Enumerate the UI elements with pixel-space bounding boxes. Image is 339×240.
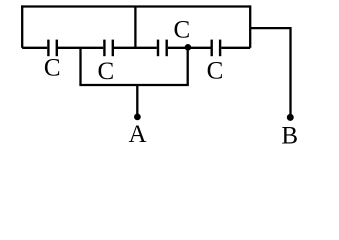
wire middle vertical	[134, 7, 136, 48]
wire bottom bus	[79, 84, 188, 86]
wire branch to B	[250, 27, 290, 29]
capacitor C4	[212, 40, 220, 57]
node A terminal dot	[134, 114, 141, 121]
svg-text:C: C	[44, 55, 61, 82]
wire cap row segment 3	[114, 47, 157, 49]
wire left vertical	[21, 5, 23, 47]
junction dot	[185, 44, 192, 51]
svg-text:C: C	[98, 58, 115, 85]
wire top rail	[21, 5, 250, 7]
node B terminal dot	[287, 114, 294, 121]
wire cap row segment 1	[22, 47, 47, 49]
svg-text:C: C	[207, 57, 224, 84]
capacitor C1	[48, 40, 56, 57]
wire B vertical	[289, 27, 291, 117]
svg-text:C: C	[173, 17, 190, 44]
wire right drop	[187, 48, 189, 85]
capacitor C3	[158, 40, 167, 57]
svg-text:A: A	[128, 121, 146, 148]
wire left drop	[79, 48, 81, 85]
wire cap row segment 4	[168, 47, 211, 49]
capacitor C2	[104, 40, 112, 57]
wire right vertical	[249, 5, 251, 47]
svg-text:B: B	[281, 123, 298, 150]
wire cap row segment 5	[221, 47, 250, 49]
wire cap row segment 2	[58, 47, 103, 49]
wire A stem	[136, 85, 138, 117]
